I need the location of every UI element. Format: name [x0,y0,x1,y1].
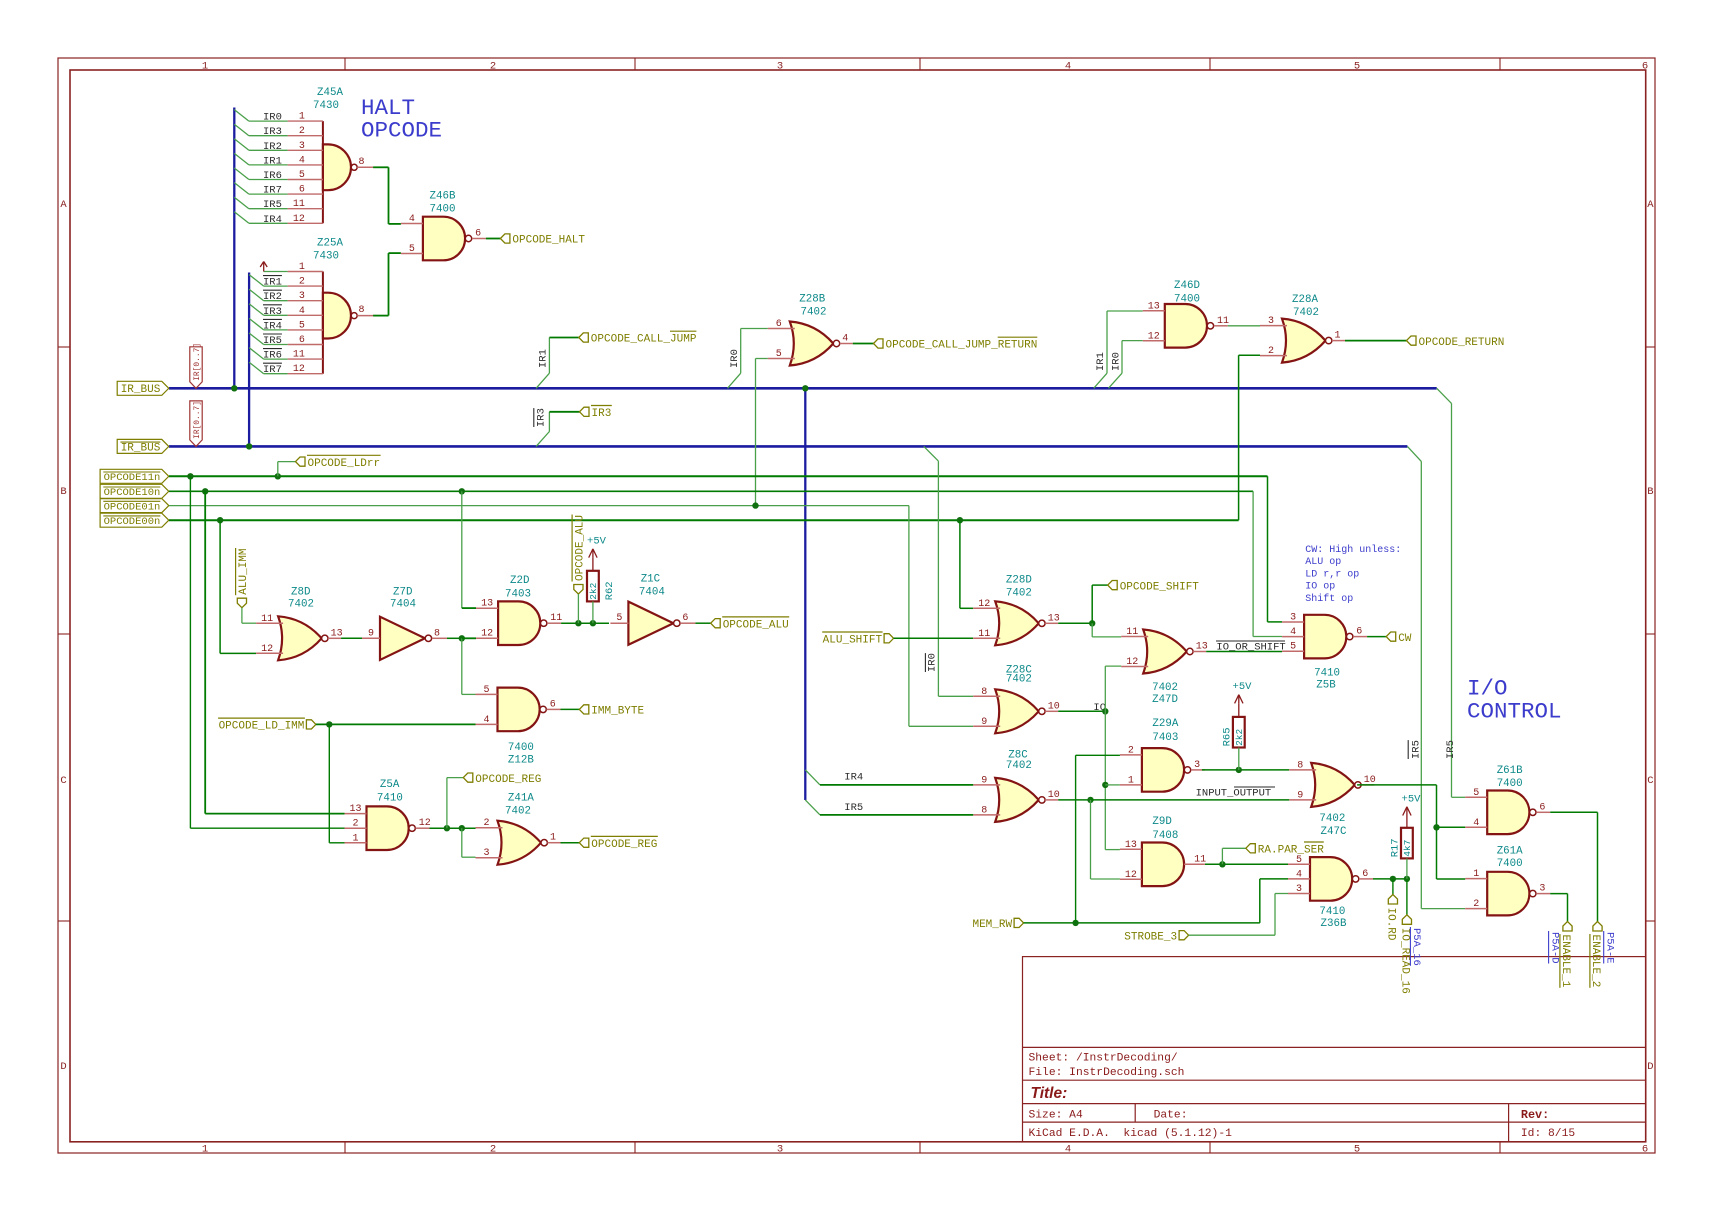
svg-text:Z2D: Z2D [510,575,529,587]
svg-text:7403: 7403 [505,589,531,601]
svg-text:6: 6 [1539,802,1545,813]
svg-text:4: 4 [1296,869,1302,880]
svg-text:IR5: IR5 [1410,740,1422,759]
svg-text:ALU_SHIFT: ALU_SHIFT [823,635,883,647]
svg-text:Z5B: Z5B [1316,680,1336,692]
svg-text:11: 11 [293,350,305,361]
svg-text:R62: R62 [604,581,616,600]
svg-text:4: 4 [842,334,848,345]
svg-text:7410: 7410 [377,793,403,805]
svg-text:OPCODE: OPCODE [361,118,442,144]
svg-text:7403: 7403 [1152,732,1178,744]
svg-text:5: 5 [1290,642,1296,653]
svg-text:IR0: IR0 [927,653,939,672]
svg-text:6: 6 [1642,1144,1648,1156]
svg-text:INPUT_OUTPUT: INPUT_OUTPUT [1196,788,1272,800]
svg-text:4: 4 [1290,627,1296,638]
svg-text:13: 13 [1196,642,1208,653]
svg-text:C: C [60,775,66,787]
svg-text:4: 4 [409,214,415,225]
svg-text:9: 9 [981,717,987,728]
svg-text:P5A_16: P5A_16 [1410,928,1422,966]
svg-text:2: 2 [1473,899,1479,910]
svg-text:13: 13 [1148,301,1160,312]
svg-text:IR5: IR5 [263,199,282,211]
svg-text:OPCODE10n: OPCODE10n [104,487,161,499]
svg-text:Z28D: Z28D [1006,575,1032,587]
svg-text:4: 4 [299,306,305,317]
svg-text:IR1: IR1 [538,349,550,368]
svg-text:Z28A: Z28A [1292,294,1318,306]
svg-text:1: 1 [202,60,208,72]
svg-text:2: 2 [299,277,305,288]
svg-text:2: 2 [299,126,305,137]
svg-text:OPCODE00n: OPCODE00n [104,516,161,528]
svg-text:12: 12 [481,629,493,640]
svg-text:LD r,r op: LD r,r op [1305,569,1359,580]
svg-text:11: 11 [978,629,990,640]
svg-text:2k2: 2k2 [588,582,599,599]
svg-text:5: 5 [1354,60,1360,72]
svg-text:4: 4 [1065,1144,1071,1156]
svg-text:7400: 7400 [508,742,534,754]
svg-text:5: 5 [409,244,415,255]
svg-text:7400: 7400 [1497,778,1523,790]
svg-text:10: 10 [1048,701,1060,712]
svg-text:3: 3 [1539,884,1545,895]
svg-text:IR6: IR6 [263,170,282,182]
svg-text:1: 1 [299,262,305,273]
svg-text:7402: 7402 [1006,760,1032,772]
svg-text:10: 10 [1048,790,1060,801]
svg-text:Z29A: Z29A [1152,718,1178,730]
svg-text:IMM_BYTE: IMM_BYTE [591,706,644,718]
svg-text:File: InstrDecoding.sch: File: InstrDecoding.sch [1029,1067,1185,1079]
svg-text:7400: 7400 [430,204,456,216]
svg-text:IO.RD: IO.RD [1385,908,1397,941]
svg-text:1: 1 [1473,869,1479,880]
svg-text:IR_BUS: IR_BUS [121,442,161,454]
svg-text:7402: 7402 [505,806,531,818]
svg-text:STROBE_3: STROBE_3 [1124,931,1177,943]
svg-text:Shift op: Shift op [1305,593,1353,605]
svg-text:Z7D: Z7D [393,587,412,599]
svg-text:IR_BUS: IR_BUS [121,384,161,396]
svg-text:11: 11 [261,614,273,625]
svg-text:7402: 7402 [1293,307,1319,319]
svg-text:6: 6 [550,699,556,710]
svg-text:CONTROL: CONTROL [1467,699,1562,725]
svg-text:CW: High unless:: CW: High unless: [1305,544,1401,556]
svg-text:IR5: IR5 [844,802,863,814]
svg-text:OPCODE_REG: OPCODE_REG [475,774,541,786]
svg-text:IO_READ_16: IO_READ_16 [1399,928,1411,994]
svg-text:12: 12 [293,364,305,375]
svg-text:3: 3 [777,60,783,72]
svg-text:6: 6 [1642,60,1648,72]
svg-text:7430: 7430 [313,251,339,263]
svg-text:Z8D: Z8D [291,587,310,599]
svg-text:OPCODE_LD_IMM: OPCODE_LD_IMM [219,721,305,733]
svg-text:2: 2 [352,819,358,830]
svg-text:Z61A: Z61A [1497,846,1523,858]
svg-text:IO_OR_SHIFT: IO_OR_SHIFT [1216,642,1285,654]
svg-text:OPCODE11n: OPCODE11n [104,472,161,484]
svg-text:11: 11 [550,613,562,624]
svg-text:IR0: IR0 [263,112,282,124]
svg-text:6: 6 [299,335,305,346]
svg-text:1: 1 [1128,775,1134,786]
svg-text:Z46D: Z46D [1174,280,1200,292]
svg-text:7410: 7410 [1314,667,1340,679]
svg-text:9: 9 [368,628,374,639]
svg-text:7402: 7402 [1006,588,1032,600]
svg-text:13: 13 [331,628,343,639]
svg-text:Z46B: Z46B [430,191,456,203]
svg-text:12: 12 [1126,657,1138,668]
svg-text:D: D [1647,1061,1653,1073]
svg-text:OPCODE_RETURN: OPCODE_RETURN [1419,337,1505,349]
svg-text:4: 4 [1473,818,1479,829]
svg-text:CW: CW [1398,633,1412,645]
svg-text:Z61B: Z61B [1497,765,1523,777]
svg-text:Z9D: Z9D [1152,816,1171,828]
svg-text:7430: 7430 [313,100,339,112]
svg-text:1: 1 [550,833,556,844]
svg-text:RA.PAR_SER: RA.PAR_SER [1258,845,1324,857]
svg-text:1: 1 [1335,331,1341,342]
svg-text:IR5: IR5 [1445,740,1457,759]
svg-text:13: 13 [1125,840,1137,851]
svg-text:Size: A4: Size: A4 [1029,1110,1083,1122]
svg-text:12: 12 [1125,870,1137,881]
svg-text:7402: 7402 [1319,813,1345,825]
svg-text:Z28B: Z28B [799,294,825,306]
svg-text:OPCODE_ALU: OPCODE_ALU [575,515,587,581]
svg-text:7402: 7402 [288,599,314,611]
svg-text:R65: R65 [1221,727,1233,746]
svg-text:5: 5 [483,685,489,696]
svg-text:1: 1 [299,112,305,123]
svg-text:4: 4 [483,715,489,726]
svg-text:6: 6 [475,229,481,240]
svg-text:1: 1 [352,833,358,844]
svg-text:IR[0..7]: IR[0..7] [193,401,202,439]
svg-text:IR6: IR6 [263,350,282,362]
svg-text:6: 6 [776,319,782,330]
svg-text:Title:: Title: [1031,1085,1068,1102]
svg-text:12: 12 [293,214,305,225]
svg-text:3: 3 [1296,884,1302,895]
svg-text:13: 13 [349,804,361,815]
svg-text:OPCODE01n: OPCODE01n [104,502,161,514]
svg-text:Date:: Date: [1154,1110,1188,1122]
svg-text:+5V: +5V [1402,794,1422,806]
svg-text:9: 9 [1297,790,1303,801]
svg-text:P5A-D: P5A-D [1548,932,1560,964]
svg-text:5: 5 [1296,855,1302,866]
svg-text:B: B [60,486,66,498]
svg-text:ALU_IMM: ALU_IMM [238,548,250,594]
svg-text:Z47C: Z47C [1321,826,1347,838]
svg-text:8: 8 [981,687,987,698]
svg-text:8: 8 [434,628,440,639]
svg-text:IO op: IO op [1305,582,1335,593]
svg-text:5: 5 [776,349,782,360]
svg-text:IR2: IR2 [263,141,282,153]
svg-text:KiCad E.D.A. kicad (5.1.12)-1: KiCad E.D.A. kicad (5.1.12)-1 [1029,1128,1233,1140]
svg-text:11: 11 [1126,627,1138,638]
svg-text:OPCODE_ALU: OPCODE_ALU [723,619,789,631]
svg-text:11: 11 [1217,316,1229,327]
svg-text:IR1: IR1 [263,277,282,289]
svg-text:IR7: IR7 [263,364,282,376]
svg-text:5: 5 [1354,1144,1360,1156]
svg-text:IR3: IR3 [263,306,282,318]
svg-text:6: 6 [299,185,305,196]
svg-text:7402: 7402 [1006,674,1032,686]
svg-text:7408: 7408 [1152,830,1178,842]
svg-text:IR1: IR1 [1095,352,1107,371]
svg-text:3: 3 [777,1144,783,1156]
svg-text:OPCODE_CALL_JUMP_RETURN: OPCODE_CALL_JUMP_RETURN [886,340,1038,352]
svg-text:2: 2 [1268,346,1274,357]
svg-text:7404: 7404 [390,599,416,611]
svg-text:B: B [1647,486,1653,498]
svg-text:IR4: IR4 [263,320,282,332]
svg-text:Z45A: Z45A [317,87,343,99]
svg-text:12: 12 [1148,331,1160,342]
svg-text:ENABLE_2: ENABLE_2 [1589,935,1601,988]
svg-text:Sheet: /InstrDecoding/: Sheet: /InstrDecoding/ [1029,1053,1178,1065]
svg-text:6: 6 [1356,627,1362,638]
svg-text:IR3: IR3 [536,408,548,427]
svg-text:IR4: IR4 [263,214,282,226]
svg-text:MEM_RW: MEM_RW [972,919,1012,931]
svg-text:12: 12 [978,599,990,610]
svg-text:13: 13 [1048,613,1060,624]
svg-text:IR3: IR3 [263,126,282,138]
svg-text:8: 8 [359,157,365,168]
svg-text:7400: 7400 [1174,294,1200,306]
svg-text:Rev:: Rev: [1521,1108,1549,1122]
svg-text:2: 2 [483,818,489,829]
svg-text:IR2: IR2 [263,291,282,303]
svg-text:IR0: IR0 [1111,352,1123,371]
svg-text:OPCODE_REG: OPCODE_REG [591,839,657,851]
svg-text:7402: 7402 [1152,682,1178,694]
svg-text:+5V: +5V [587,536,607,548]
svg-text:Z25A: Z25A [317,238,343,250]
svg-text:7404: 7404 [639,586,665,598]
svg-text:C: C [1647,775,1653,787]
svg-text:R17: R17 [1389,838,1401,857]
svg-text:3: 3 [1268,316,1274,327]
svg-text:12: 12 [261,644,273,655]
svg-text:P5A-E: P5A-E [1604,932,1616,964]
svg-text:3: 3 [299,141,305,152]
svg-text:3: 3 [1290,613,1296,624]
svg-text:IR0: IR0 [729,349,741,368]
svg-text:3: 3 [483,848,489,859]
svg-text:Z41A: Z41A [508,793,534,805]
svg-text:A: A [1647,199,1654,211]
svg-text:4k7: 4k7 [1402,840,1413,857]
svg-text:5: 5 [1473,788,1479,799]
svg-text:4: 4 [299,155,305,166]
svg-text:IR1: IR1 [263,155,282,167]
svg-text:D: D [60,1061,66,1073]
svg-text:12: 12 [419,818,431,829]
svg-text:IR3: IR3 [592,408,612,420]
svg-text:6: 6 [682,613,688,624]
svg-text:3: 3 [1194,760,1200,771]
svg-text:IR5: IR5 [263,335,282,347]
svg-text:5: 5 [299,170,305,181]
svg-text:8: 8 [1297,760,1303,771]
svg-text:4: 4 [1065,60,1071,72]
svg-text:5: 5 [299,320,305,331]
svg-text:OPCODE_SHIFT: OPCODE_SHIFT [1120,581,1200,593]
svg-text:Z5A: Z5A [380,779,400,791]
svg-text:2: 2 [490,1144,496,1156]
svg-text:Z47D: Z47D [1152,694,1178,706]
svg-text:ALU op: ALU op [1305,557,1341,568]
svg-text:I/O: I/O [1467,676,1508,702]
svg-text:8: 8 [981,805,987,816]
svg-text:5: 5 [616,613,622,624]
svg-text:IR[0..7]: IR[0..7] [193,343,202,381]
svg-text:OPCODE_HALT: OPCODE_HALT [512,235,585,247]
svg-text:13: 13 [481,599,493,610]
svg-text:Z12B: Z12B [508,755,534,767]
svg-text:1: 1 [202,1144,208,1156]
svg-text:2: 2 [1128,745,1134,756]
svg-text:Id: 8/15: Id: 8/15 [1521,1128,1575,1140]
svg-text:11: 11 [293,199,305,210]
svg-text:A: A [60,199,67,211]
svg-text:Z1C: Z1C [641,573,661,585]
svg-text:3: 3 [299,291,305,302]
svg-text:11: 11 [1194,854,1206,865]
svg-text:Z36B: Z36B [1321,918,1347,930]
svg-text:IR4: IR4 [844,772,863,784]
svg-text:7400: 7400 [1497,858,1523,870]
svg-text:OPCODE_LDrr: OPCODE_LDrr [308,458,381,470]
svg-text:2: 2 [490,60,496,72]
svg-text:7410: 7410 [1319,906,1345,918]
svg-text:OPCODE_CALL_JUMP: OPCODE_CALL_JUMP [591,334,697,346]
svg-text:2k2: 2k2 [1234,728,1245,745]
svg-text:8: 8 [359,305,365,316]
svg-text:IR7: IR7 [263,185,282,197]
svg-text:+5V: +5V [1233,681,1253,693]
svg-text:9: 9 [981,775,987,786]
svg-text:7402: 7402 [801,307,827,319]
svg-text:6: 6 [1362,869,1368,880]
